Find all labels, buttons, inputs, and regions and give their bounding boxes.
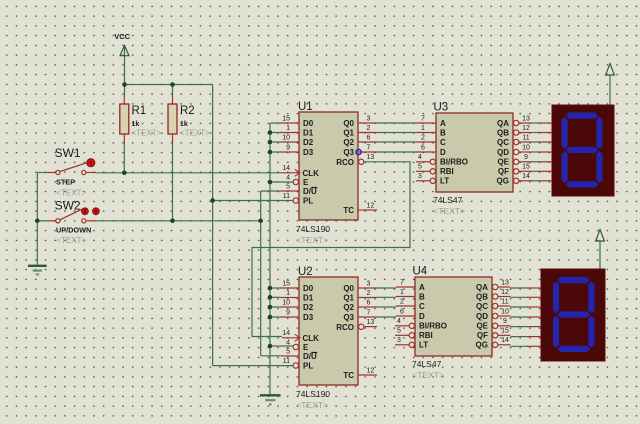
U2 pin Q2 stub (358, 306, 377, 308)
IC U1 74LS190 body (299, 112, 358, 220)
svg-text:15: 15 (501, 328, 509, 335)
svg-text:Q2: Q2 (343, 138, 354, 147)
U1 pin D2 stub (280, 141, 299, 143)
DISP1 segment C (596, 151, 602, 183)
U4 pin QD stub (498, 315, 511, 317)
switch SW1 red actuator dot 1 (87, 159, 95, 167)
ground below U2 data chain (260, 395, 281, 404)
svg-text:QF: QF (477, 331, 488, 340)
wire U4 QA to display DISP2 (511, 287, 528, 289)
svg-text:E: E (303, 343, 309, 352)
svg-text:QA: QA (497, 119, 509, 128)
svg-text:3: 3 (367, 115, 371, 122)
ground left below SW2 (28, 266, 47, 275)
switch SW1 left pin (48, 172, 55, 174)
svg-text:<TEXT>: <TEXT> (296, 235, 328, 245)
svg-text:9: 9 (524, 154, 528, 161)
wire R1 top lead from rail (124, 85, 126, 96)
wire U4 QG to display DISP2 (511, 345, 528, 347)
svg-text:TC: TC (343, 371, 354, 380)
wire U4 QB to display DISP2 (511, 296, 528, 298)
wire DISP2 power arrow lead (599, 241, 601, 269)
resistor R1 bottom pin (123, 134, 125, 144)
resistor R2 bottom pin (172, 134, 174, 144)
U4 pin QD bubble (493, 313, 498, 318)
U3 pin QF bubble (514, 169, 519, 174)
U3 pin BI/RBO bubble (430, 159, 435, 164)
svg-text:Q0: Q0 (343, 119, 354, 128)
U2 pin E bubble (293, 344, 298, 349)
DISP2 pin f (527, 336, 541, 338)
svg-text:10: 10 (282, 299, 290, 306)
wire R1 bottom lead to SW1 net (123, 144, 125, 173)
svg-text:1: 1 (286, 290, 290, 297)
DISP2 segment B (588, 281, 594, 313)
svg-text:SW1: SW1 (55, 146, 81, 160)
DISP2 segment A (557, 277, 590, 283)
U3 pin RBI dangling stub (416, 170, 430, 172)
svg-text:12: 12 (367, 367, 375, 374)
DISP2 pin e (527, 326, 541, 328)
U4 pin QF stub (498, 334, 511, 336)
node gnd chain/U2 D0 (268, 286, 273, 291)
node SW2/D-U chain junction (258, 219, 263, 224)
U4 pin RBI dangling stub (395, 334, 409, 336)
wire U2 Q2 to U4 C (377, 306, 396, 308)
wire R2 top lead from rail (172, 85, 174, 96)
wire VCC rail horizontal to PL chain corner (125, 84, 213, 86)
DISP2 segment F (553, 281, 559, 313)
svg-text:11: 11 (501, 298, 508, 305)
svg-text:10: 10 (522, 144, 530, 151)
wire U1 D/U vertical chain to U2 D/U (260, 191, 262, 356)
svg-text:3: 3 (397, 337, 401, 344)
wire U1 D2 stub (270, 141, 280, 143)
svg-text:15: 15 (282, 115, 290, 122)
svg-text:QD: QD (476, 312, 488, 321)
node VCC chain/U1 PL junction (210, 198, 215, 203)
U4 pin LT bubble (409, 342, 414, 347)
U1 pin TC stub (358, 209, 377, 211)
svg-text:D1: D1 (303, 293, 314, 302)
svg-text:Q3: Q3 (343, 313, 354, 322)
svg-text:7: 7 (367, 309, 371, 316)
wire U4 QE to display DISP2 (511, 326, 528, 328)
U3 pin QB bubble (514, 130, 519, 135)
U3 pin QC bubble (514, 139, 519, 144)
wire DISP1 power arrow lead (609, 75, 611, 106)
U4 pin BI/RBO dangling stub (395, 325, 409, 327)
svg-text:Q0: Q0 (343, 284, 354, 293)
svg-text:14: 14 (522, 173, 530, 180)
svg-text:5: 5 (286, 348, 290, 355)
svg-text:15: 15 (282, 280, 290, 287)
svg-text:3: 3 (367, 280, 371, 287)
U2 pin RCO bubble (359, 324, 364, 329)
svg-text:14: 14 (501, 337, 509, 344)
wire U1 D3 stub (270, 151, 280, 153)
DISP2 pin b (527, 296, 541, 298)
node gnd chain/U2 D1 (268, 295, 273, 300)
svg-text:9: 9 (286, 309, 290, 316)
svg-text:RBI: RBI (419, 331, 433, 340)
U2 pin D/U stub (282, 355, 299, 357)
resistor R2 body (168, 104, 177, 134)
svg-text:LT: LT (419, 341, 428, 350)
svg-text:2: 2 (367, 125, 371, 132)
U3 pin QD bubble (514, 149, 519, 154)
svg-text:TC: TC (343, 206, 354, 215)
DISP1 pin g (539, 180, 553, 182)
svg-text:Q3: Q3 (343, 148, 354, 157)
node gnd chain/U1 D2 (268, 140, 273, 145)
svg-text:A: A (419, 283, 425, 292)
svg-text:2: 2 (400, 298, 404, 305)
U3 pin B stub (417, 132, 436, 134)
svg-text:RCO: RCO (336, 323, 354, 332)
svg-text:13: 13 (367, 154, 375, 161)
resistor R1 top pin (123, 95, 125, 104)
U2 pin Q1 stub (358, 297, 377, 299)
svg-text:5: 5 (418, 164, 422, 171)
U4 pin LT dangling stub (395, 344, 409, 346)
svg-text:RCO: RCO (336, 158, 354, 167)
DISP1 pin b (539, 132, 553, 134)
svg-text:4: 4 (397, 318, 401, 325)
U3 pin LT bubble (430, 178, 435, 183)
wire U3 QE to display DISP1 (532, 161, 540, 163)
IC U4 74LS47 body (415, 277, 492, 356)
node rail/R2 junction (170, 82, 175, 87)
svg-text:C: C (440, 138, 446, 147)
U3 pin QF stub (519, 170, 532, 172)
node gnd chain/U1 E (268, 180, 273, 185)
U2 D/U overline (311, 352, 317, 354)
U1 pin Q2 stub (358, 141, 377, 143)
U1 pin Q3 stub (358, 151, 377, 153)
svg-text:STEP: STEP (56, 177, 75, 186)
svg-text:U4: U4 (413, 266, 428, 278)
blue node marker on U1 Q3 (356, 149, 361, 154)
wire VCC stem from VCC arrow down to rail (124, 46, 126, 85)
svg-text:CLK: CLK (303, 334, 320, 343)
wire U2 Q3 to U4 D (377, 316, 396, 318)
U3 pin BI/RBO dangling stub (416, 161, 430, 163)
svg-text:10: 10 (282, 134, 290, 141)
wire U3 QF to display DISP1 (532, 170, 540, 172)
U4 pin QB bubble (493, 294, 498, 299)
U4 pin QA bubble (493, 284, 498, 289)
U4 pin QF bubble (493, 333, 498, 338)
wire U1 Q1 to U3 B (377, 132, 417, 134)
U1 pin PL bubble (293, 198, 298, 203)
U3 pin QA bubble (514, 120, 519, 125)
svg-text:QB: QB (497, 128, 509, 137)
svg-text:R2: R2 (180, 105, 195, 117)
svg-text:74LS47: 74LS47 (412, 359, 442, 369)
svg-text:1k: 1k (180, 121, 188, 128)
U2 pin TC stub (358, 374, 377, 376)
svg-text:D/U: D/U (303, 187, 317, 196)
wire U1 D1 stub (270, 132, 280, 134)
U3 pin RBI bubble (430, 169, 435, 174)
wire U2 D/U branch (261, 355, 282, 357)
U3 pin QE stub (519, 161, 532, 163)
svg-text:12: 12 (501, 289, 509, 296)
U2 CLK clock chevron (295, 334, 300, 341)
svg-text:Q2: Q2 (343, 303, 354, 312)
svg-text:<TEXT>: <TEXT> (296, 400, 328, 410)
U1 CLK clock chevron (295, 169, 300, 176)
U3 pin QG bubble (514, 178, 519, 183)
svg-text:9: 9 (286, 144, 290, 151)
DISP1 pin f (539, 170, 553, 172)
node gnd chain/U1 D3 (268, 150, 273, 155)
DISP2 pin a (527, 287, 541, 289)
svg-text:11: 11 (283, 193, 290, 200)
svg-text:1: 1 (286, 125, 290, 132)
DISP1 segment D (566, 181, 598, 187)
U4 pin QC stub (498, 305, 511, 307)
node left-rail/SW2 junction (35, 219, 40, 224)
wire U2 D3 stub (270, 316, 280, 318)
U2 pin D1 stub (280, 297, 299, 299)
svg-text:QA: QA (476, 283, 488, 292)
svg-text:1: 1 (421, 125, 425, 132)
svg-text:6: 6 (400, 308, 404, 315)
power arrow for DISP1 (606, 64, 615, 76)
svg-text:QD: QD (497, 148, 509, 157)
wire U3 QB to display DISP1 (532, 132, 540, 134)
svg-text:UP/DOWN: UP/DOWN (56, 226, 91, 235)
svg-text:2: 2 (421, 134, 425, 141)
svg-text:VCC: VCC (114, 32, 130, 41)
svg-text:QB: QB (476, 292, 488, 301)
svg-text:BI/RBO: BI/RBO (440, 158, 468, 167)
svg-text:10: 10 (501, 308, 509, 315)
svg-text:14: 14 (282, 330, 290, 337)
svg-text:A: A (440, 119, 446, 128)
U1 pin CLK stub (282, 172, 299, 174)
svg-text:Q1: Q1 (343, 128, 354, 137)
power arrow for DISP2 (596, 230, 605, 242)
wire U3 QD to display DISP1 (532, 151, 540, 153)
wire U2 Q1 to U4 B (377, 296, 396, 298)
node gnd chain/U2 D2 (268, 305, 273, 310)
svg-text:<TEXT>: <TEXT> (56, 188, 86, 197)
svg-text:<TEXT>: <TEXT> (180, 129, 210, 138)
U3 pin QB stub (519, 132, 532, 134)
wire VCC branch to U1 PL pin (213, 200, 293, 202)
U1 pin Q0 stub (358, 122, 377, 124)
IC U2 74LS190 body (299, 277, 358, 385)
svg-text:D/U: D/U (303, 352, 317, 361)
wire VCC branch to U2 PL pin (213, 365, 293, 367)
svg-text:QG: QG (476, 341, 488, 350)
U3 pin D stub (417, 151, 436, 153)
wire U2 D2 stub (270, 306, 280, 308)
U4 pin QB stub (498, 296, 511, 298)
svg-text:E: E (303, 178, 309, 187)
U4 pin QA stub (498, 286, 511, 288)
svg-text:D3: D3 (303, 313, 314, 322)
svg-text:12: 12 (367, 202, 375, 209)
svg-text:6: 6 (367, 299, 371, 306)
7-segment display DISP2 panel (541, 269, 605, 361)
U1 pin Q1 stub (358, 132, 377, 134)
DISP2 segment C (588, 316, 594, 348)
svg-text:BI/RBO: BI/RBO (419, 322, 447, 331)
U4 pin C stub (396, 305, 415, 307)
U3 pin LT dangling stub (416, 180, 430, 182)
svg-text:3: 3 (418, 173, 422, 180)
DISP1 pin d (539, 151, 553, 153)
power VCC arrow symbol (120, 46, 129, 56)
svg-text:6: 6 (367, 134, 371, 141)
switch SW2 left terminal (56, 219, 60, 223)
U3 pin QA stub (519, 122, 532, 124)
svg-text:<TEXT>: <TEXT> (132, 129, 162, 138)
DISP2 segment D (557, 346, 590, 352)
7-segment display DISP1 panel (552, 105, 614, 196)
svg-text:D0: D0 (303, 119, 314, 128)
wire net VCC vertical x=212.6 down to U2 PL row (212, 85, 214, 366)
svg-text:C: C (419, 302, 425, 311)
U2 pin PL bubble (293, 363, 298, 368)
svg-text:7: 7 (367, 144, 371, 151)
DISP1 segment F (562, 117, 568, 149)
node gnd chain/U1 D1 (268, 130, 273, 135)
U2 pin Q3 stub (358, 316, 377, 318)
U4 pin QE bubble (493, 323, 498, 328)
U4 pin QE stub (498, 325, 511, 327)
svg-text:11: 11 (522, 134, 529, 141)
U1 pin D1 stub (280, 132, 299, 134)
wire U3 QA to display DISP1 (532, 122, 540, 124)
svg-text:U3: U3 (434, 102, 449, 114)
svg-text:B: B (440, 128, 446, 137)
svg-text:11: 11 (283, 358, 290, 365)
U2 pin CLK stub (282, 337, 299, 339)
svg-text:4: 4 (418, 154, 422, 161)
U4 pin QG bubble (493, 342, 498, 347)
wire U1 Q0 to U3 A (377, 122, 417, 124)
svg-text:D1: D1 (303, 128, 314, 137)
svg-text:74LS190: 74LS190 (296, 224, 330, 234)
svg-text:Q1: Q1 (343, 293, 354, 302)
wire U1 D/U branch (261, 190, 282, 192)
switch SW2 right terminal (82, 219, 86, 223)
wire U2 D0 stub (270, 287, 280, 289)
svg-text:74LS190: 74LS190 (296, 389, 330, 399)
svg-text:4: 4 (286, 174, 290, 181)
DISP1 pin c (539, 141, 553, 143)
svg-text:1k: 1k (132, 121, 140, 128)
svg-text:QC: QC (476, 302, 488, 311)
svg-text:LT: LT (440, 177, 449, 186)
svg-text:<TEXT>: <TEXT> (412, 370, 444, 380)
U4 pin D stub (396, 315, 415, 317)
svg-text:PL: PL (303, 197, 313, 206)
U2 pin D3 stub (280, 316, 299, 318)
svg-text:PL: PL (303, 362, 313, 371)
switch SW2 left pin (48, 220, 55, 222)
wire SW2 left terminal to left rail (37, 220, 48, 222)
svg-text:5: 5 (286, 183, 290, 190)
switch SW2 lever (60, 209, 82, 220)
wire SW1/STEP net to U1 CLK (96, 172, 282, 174)
svg-text:13: 13 (522, 115, 530, 122)
U3 pin QE bubble (514, 159, 519, 164)
wire U4 QF to display DISP2 (511, 336, 528, 338)
node VCC-rail/R1 junction (122, 82, 127, 87)
U2 pin D0 stub (280, 287, 299, 289)
U3 pin A stub (417, 122, 436, 124)
U4 pin QC bubble (493, 303, 498, 308)
wire U2 E stub (270, 345, 293, 347)
DISP1 segment G (566, 147, 598, 153)
svg-text:4: 4 (286, 339, 290, 346)
wire ground chain vertical x=270 (269, 123, 271, 395)
DISP2 segment G (557, 311, 590, 317)
DISP1 segment E (562, 151, 568, 183)
svg-text:13: 13 (501, 279, 509, 286)
svg-text:7: 7 (400, 279, 404, 286)
svg-text:6: 6 (421, 144, 425, 151)
svg-text:D: D (419, 312, 425, 321)
wire U1 Q3 to U3 D (377, 151, 417, 153)
switch SW1 right terminal (82, 170, 86, 174)
U3 pin C stub (417, 141, 436, 143)
DISP1 segment A (566, 113, 598, 119)
U2 RCO dangling stub (365, 326, 378, 328)
U4 pin BI/RBO bubble (409, 323, 414, 328)
U3 pin QD stub (519, 151, 532, 153)
U1 pin D3 stub (280, 151, 299, 153)
DISP1 pin e (539, 161, 553, 163)
svg-text:1: 1 (400, 289, 404, 296)
wire U2 Q0 to U4 A (377, 287, 396, 289)
U2 pin Q0 stub (358, 287, 377, 289)
svg-text:74LS47: 74LS47 (433, 195, 463, 205)
svg-text:U2: U2 (298, 266, 313, 278)
wire SW1 left terminal to left rail (37, 172, 48, 174)
DISP1 pin a (539, 122, 553, 124)
svg-text:QF: QF (498, 167, 509, 176)
U4 pin QG stub (498, 344, 511, 346)
U1 pin RCO bubble (359, 159, 364, 164)
svg-text:CLK: CLK (303, 169, 320, 178)
wire U1 E stub (270, 181, 293, 183)
DISP2 pin c (527, 306, 541, 308)
svg-text:U1: U1 (298, 101, 313, 113)
svg-text:D3: D3 (303, 148, 314, 157)
svg-text:D2: D2 (303, 303, 314, 312)
svg-text:B: B (419, 292, 425, 301)
svg-text:5: 5 (397, 328, 401, 335)
U3 pin QG stub (519, 180, 532, 182)
wire U4 QD to display DISP2 (511, 316, 528, 318)
U2 pin D2 stub (280, 306, 299, 308)
wire U1 Q2 to U3 C (377, 141, 417, 143)
svg-text:<TEXT>: <TEXT> (56, 236, 86, 245)
svg-text:SW2: SW2 (55, 199, 81, 213)
switch SW2 red actuator dot 1 (82, 208, 89, 215)
U4 pin B stub (396, 296, 415, 298)
switch SW1 lever (60, 162, 88, 171)
node R1/SW1 junction (122, 171, 127, 176)
U3 pin QC stub (519, 141, 532, 143)
